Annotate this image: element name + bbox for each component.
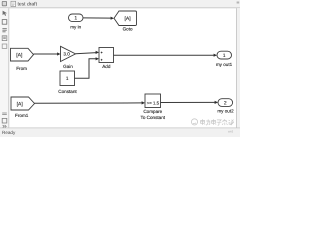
svg-text:2: 2	[224, 100, 227, 106]
svg-text:1: 1	[74, 16, 77, 22]
svg-text:[A]: [A]	[16, 52, 23, 58]
svg-text:my out1: my out1	[216, 62, 233, 67]
svg-text:test draft: test draft	[18, 2, 38, 8]
svg-text:[A]: [A]	[17, 101, 24, 107]
svg-text:From1: From1	[15, 113, 29, 118]
svg-text:Ready: Ready	[2, 130, 16, 135]
svg-text:my in: my in	[70, 25, 81, 30]
svg-text:[A]: [A]	[125, 16, 132, 22]
svg-text:my out2: my out2	[217, 108, 234, 113]
svg-text:>= 1.5: >= 1.5	[147, 100, 160, 105]
svg-text:Gain: Gain	[63, 64, 73, 69]
svg-text:Constant: Constant	[58, 89, 77, 94]
svg-text:1: 1	[66, 76, 69, 82]
svg-text:Compare: Compare	[143, 109, 162, 114]
svg-text:Goto: Goto	[123, 26, 133, 31]
svg-text:1: 1	[223, 53, 226, 59]
svg-text:Add: Add	[102, 64, 111, 69]
svg-text:3.0: 3.0	[63, 52, 70, 57]
svg-text:From: From	[16, 66, 27, 71]
svg-text:wrd: wrd	[228, 130, 233, 134]
svg-text:To Constant: To Constant	[141, 115, 166, 120]
